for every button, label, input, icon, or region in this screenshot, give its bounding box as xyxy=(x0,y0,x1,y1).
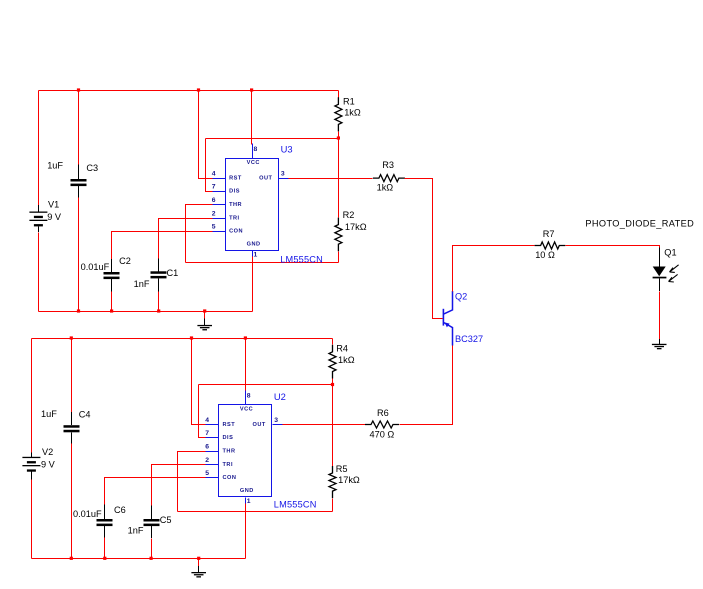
wire VCC rail to U3 RST pin 4 xyxy=(199,91,213,179)
label refdes U3 xyxy=(281,144,293,155)
svg-text:8: 8 xyxy=(254,146,258,153)
U2 pin number 3 xyxy=(274,417,278,424)
svg-text:C2: C2 xyxy=(119,256,131,266)
battery V2 9V source xyxy=(22,453,40,480)
svg-text:OUT: OUT xyxy=(259,175,272,181)
junction dot bottomrail2-C6 xyxy=(103,557,106,560)
U2 pin number 7 xyxy=(205,430,209,437)
label value 17k ohm of R2 xyxy=(345,222,367,232)
label refdes R1 xyxy=(343,96,355,106)
U2 pin name OUT xyxy=(253,422,266,428)
label value 470 ohm of R6 xyxy=(370,429,395,439)
junction dot bottomrail-C3 xyxy=(77,309,80,312)
svg-text:GND: GND xyxy=(240,488,254,494)
wire U3 CON pin 5 to C2 xyxy=(112,232,213,260)
svg-text:TRI: TRI xyxy=(223,462,234,468)
transistor Q2 emitter arrow (PNP) xyxy=(445,322,450,327)
label refdes C3 xyxy=(86,163,98,173)
U2 pin 5 CON stub xyxy=(206,477,219,479)
resistor R7 10 ohm xyxy=(535,242,566,249)
U2 pin name DIS xyxy=(223,435,234,441)
wire U2 pin 1 to ground rail xyxy=(245,504,247,559)
capacitor C6 0.01uF xyxy=(97,505,113,538)
U2 pin number 2 xyxy=(205,457,209,464)
U3 pin number 6 xyxy=(212,197,216,204)
svg-text:C1: C1 xyxy=(167,268,179,278)
junction dot ground stem on rail xyxy=(203,309,206,312)
svg-text:9 V: 9 V xyxy=(41,459,56,469)
wire OUT row to R2 top xyxy=(338,179,340,218)
svg-text:R4: R4 xyxy=(336,344,348,354)
U2 pin number 4 xyxy=(205,417,209,424)
U2 pin 4 RST stub xyxy=(206,424,219,426)
U3 pin name TRI xyxy=(229,215,240,221)
wire DIS node down to U2 DIS pin 7 xyxy=(199,385,206,438)
svg-text:1kΩ: 1kΩ xyxy=(377,183,394,193)
svg-text:LM555CN: LM555CN xyxy=(280,254,323,264)
svg-text:R3: R3 xyxy=(382,160,394,170)
svg-text:THR: THR xyxy=(223,448,236,454)
label value 9 V of V2 xyxy=(41,459,56,469)
wire Q2 collector up to R7 row xyxy=(453,246,535,292)
label refdes R4 xyxy=(336,344,348,354)
label value 1k ohm of R3 xyxy=(377,183,394,193)
svg-text:C6: C6 xyxy=(114,505,126,515)
svg-text:U3: U3 xyxy=(281,144,293,155)
U3 pin name DIS xyxy=(229,189,240,195)
diode Q1 cathode lead xyxy=(659,278,661,291)
wire U3 TRI pin 2 to C1 xyxy=(159,219,213,259)
svg-text:1: 1 xyxy=(247,498,251,505)
U3 pin 1 GND stub xyxy=(252,251,254,257)
junction dot bottomrail2-C4 xyxy=(70,557,73,560)
wire DIS node horizontal xyxy=(206,138,339,140)
label value 1k ohm of R4 xyxy=(338,355,355,365)
svg-text:R1: R1 xyxy=(343,96,355,106)
wire DIS node horizontal lower xyxy=(199,384,333,386)
junction dot R1-DIS node xyxy=(337,136,340,139)
label refdes R7 xyxy=(543,229,555,239)
wire ground stem red part xyxy=(204,312,206,319)
wire Q1 cathode to ground xyxy=(659,292,661,340)
wire C2 lower lead xyxy=(111,292,113,312)
capacitor C2 0.01uF xyxy=(104,259,120,292)
wire R4 bottom to DIS node xyxy=(332,379,334,385)
svg-text:V2: V2 xyxy=(42,447,53,457)
svg-text:VCC: VCC xyxy=(247,160,260,166)
U2 pin 8 VCC stub xyxy=(245,391,247,405)
resistor R1 1k xyxy=(335,97,342,131)
U3 pin number 4 xyxy=(212,170,216,177)
U3 pin name RST xyxy=(229,175,242,181)
label refdes R5 xyxy=(336,464,348,474)
wire ground stem red part lower xyxy=(198,559,200,567)
svg-text:1kΩ: 1kΩ xyxy=(338,355,355,365)
svg-text:OUT: OUT xyxy=(253,422,266,428)
svg-text:Q2: Q2 xyxy=(455,291,467,301)
label value 1uF of C4 xyxy=(41,409,57,419)
U3 pin 7 DIS stub xyxy=(213,191,226,193)
svg-text:5: 5 xyxy=(212,224,216,231)
junction dot rail-C3 xyxy=(77,88,80,91)
wire U3 OUT pin 3 to R3 xyxy=(289,178,373,180)
U3 pin number 7 xyxy=(212,184,216,191)
svg-text:5: 5 xyxy=(205,470,209,477)
U2 pin name GND xyxy=(240,488,254,494)
resistor R6 470 ohm xyxy=(365,421,399,428)
wire rail corner to R1 xyxy=(338,91,340,98)
U3 pin name VCC xyxy=(247,160,260,166)
svg-text:R6: R6 xyxy=(377,408,389,418)
junction dot rail2-RST wire xyxy=(190,336,193,339)
wire DIS node down to U3 DIS pin 7 xyxy=(206,139,213,192)
U2 pin name CON xyxy=(223,475,237,481)
wire C4 upper lead xyxy=(71,339,73,413)
diode Q1 cathode bar xyxy=(653,277,667,279)
U3 pin 8 VCC stub xyxy=(252,144,254,159)
svg-text:U2: U2 xyxy=(274,391,286,402)
svg-text:LM555CN: LM555CN xyxy=(274,500,317,510)
U3 pin number 2 xyxy=(212,210,216,217)
svg-text:V1: V1 xyxy=(48,200,59,210)
wire C1 lower lead xyxy=(158,292,160,312)
capacitor C4 1uF xyxy=(64,412,80,444)
wire VCC rail to U3 pin 8 xyxy=(251,91,253,145)
label value 1nF of C1 xyxy=(134,279,150,289)
U3 pin number 8 xyxy=(254,146,258,153)
U2 pin number 5 xyxy=(205,470,209,477)
U2 pin number 8 xyxy=(247,392,251,399)
svg-text:1uF: 1uF xyxy=(47,161,63,171)
wire timing node THR to R5 bottom xyxy=(178,511,333,513)
svg-text:2: 2 xyxy=(212,210,216,217)
ground symbol under Q1 xyxy=(652,339,667,349)
wire V1 branch lower xyxy=(38,233,40,312)
U2 pin number 6 xyxy=(205,443,209,450)
svg-text:6: 6 xyxy=(212,197,216,204)
svg-text:C4: C4 xyxy=(79,410,91,420)
svg-text:1nF: 1nF xyxy=(128,526,144,536)
op-amp U2 LM555CN timer body xyxy=(219,405,272,497)
label refdes Q2 xyxy=(455,291,467,301)
svg-text:7: 7 xyxy=(205,430,209,437)
label refdes R2 xyxy=(343,210,355,220)
wire bottom ground rail of U2 circuit xyxy=(32,558,246,560)
wire C6 lower lead xyxy=(104,538,106,559)
U2 pin 2 TRI stub xyxy=(206,464,219,466)
wire R1 bottom to DIS node xyxy=(338,132,340,139)
wire top VCC rail of V2 circuit xyxy=(32,338,333,340)
svg-text:Q1: Q1 xyxy=(664,247,676,257)
label refdes C5 xyxy=(160,515,172,525)
resistor R2 17k xyxy=(335,218,342,252)
svg-text:DIS: DIS xyxy=(229,189,240,195)
svg-text:CON: CON xyxy=(223,475,237,481)
label refdes C2 xyxy=(119,256,131,266)
wire DIS node through OUT row to R5 top xyxy=(332,385,334,467)
U2 pin name VCC xyxy=(240,407,253,413)
svg-text:17kΩ: 17kΩ xyxy=(338,475,360,485)
U2 pin number 1 xyxy=(247,498,251,505)
wire R7 to photodiode Q1 xyxy=(566,246,660,249)
svg-text:6: 6 xyxy=(205,443,209,450)
svg-text:2: 2 xyxy=(205,457,209,464)
wire R5 bottom corner xyxy=(332,499,334,512)
junction dot bottomrail-C2 xyxy=(110,309,113,312)
capacitor C5 1nF xyxy=(144,505,160,538)
label refdes C6 xyxy=(114,505,126,515)
diode Q1 anode lead xyxy=(659,248,661,267)
junction dot ground stem on rail 2 xyxy=(197,557,200,560)
label refdes C4 xyxy=(79,410,91,420)
svg-text:4: 4 xyxy=(205,417,209,424)
U3 pin 4 RST stub xyxy=(213,178,226,180)
label value 9 V of V1 xyxy=(47,212,62,222)
U3 pin 2 TRI stub xyxy=(213,218,226,220)
svg-text:8: 8 xyxy=(247,392,251,399)
wire top VCC rail of V1 circuit xyxy=(39,90,339,92)
U3 pin number 5 xyxy=(212,224,216,231)
svg-text:10 Ω: 10 Ω xyxy=(535,250,555,260)
label part LM555CN of U2 xyxy=(274,500,317,510)
wire C5 lower lead xyxy=(151,539,153,559)
U3 pin 3 OUT stub xyxy=(279,178,289,180)
label value 0.01uF of C6 xyxy=(73,509,102,519)
U3 pin 6 THR stub xyxy=(213,204,226,206)
U2 pin name TRI xyxy=(223,462,234,468)
svg-text:C3: C3 xyxy=(86,163,98,173)
wire rail corner to R4 xyxy=(332,339,334,345)
wire U2 OUT pin 3 to R6 xyxy=(283,424,366,426)
wire DIS node to OUT row crossing xyxy=(338,139,340,179)
svg-text:TRI: TRI xyxy=(229,215,240,221)
wire U2 THR pin 6 to timing node xyxy=(178,452,206,512)
svg-text:7: 7 xyxy=(212,184,216,191)
label net PHOTO_DIODE_RATED xyxy=(585,219,694,229)
wire Q2 emitter down to R6 row xyxy=(400,346,453,425)
wire bottom ground rail of U3 circuit xyxy=(39,311,253,313)
label part LM555CN of U3 xyxy=(280,254,323,264)
wire R3 to Q2 base xyxy=(405,179,443,319)
resistor R5 17k xyxy=(329,466,336,498)
capacitor C1 1nF xyxy=(151,259,167,292)
diode Q1 triangle xyxy=(653,267,666,277)
svg-text:1kΩ: 1kΩ xyxy=(344,108,361,118)
svg-text:1nF: 1nF xyxy=(134,279,150,289)
wire R2 bottom corner xyxy=(338,252,340,263)
svg-text:3: 3 xyxy=(281,171,285,178)
wire timing node THR to R2 bottom xyxy=(186,262,339,264)
wire C4 lower lead xyxy=(71,444,73,559)
U2 pin 7 DIS stub xyxy=(206,437,219,439)
label refdes U2 xyxy=(274,391,286,402)
wire VCC rail to U2 pin 8 xyxy=(245,339,247,391)
wire V2 branch lower xyxy=(31,480,33,559)
capacitor C3 1uF xyxy=(71,164,87,197)
label part BC327 of Q2 xyxy=(455,334,483,344)
photodiode Q1 light arrow 1 xyxy=(670,265,679,273)
U3 pin name CON xyxy=(229,229,243,235)
svg-text:GND: GND xyxy=(247,242,261,248)
label refdes V2 xyxy=(42,447,53,457)
svg-text:THR: THR xyxy=(229,202,242,208)
U2 pin name THR xyxy=(223,448,236,454)
svg-text:9 V: 9 V xyxy=(47,212,62,222)
op-amp U3 LM555CN timer body xyxy=(226,159,279,251)
svg-text:1: 1 xyxy=(254,252,258,259)
transistor Q2 emitter lead xyxy=(444,323,453,346)
svg-text:0.01uF: 0.01uF xyxy=(73,509,102,519)
svg-text:R5: R5 xyxy=(336,464,348,474)
U2 pin name RST xyxy=(223,422,236,428)
svg-text:PHOTO_DIODE_RATED: PHOTO_DIODE_RATED xyxy=(585,219,694,229)
label value 1k ohm of R1 xyxy=(344,108,361,118)
wire U3 pin 1 to ground rail xyxy=(252,257,254,312)
U3 pin name OUT xyxy=(259,175,272,181)
resistor R4 1k xyxy=(329,345,336,379)
svg-text:1uF: 1uF xyxy=(41,409,57,419)
junction dot rail2-pin8 wire xyxy=(244,336,247,339)
junction dot rail-RST wire xyxy=(197,88,200,91)
U3 pin 5 CON stub xyxy=(213,231,226,233)
ground symbol of U3 circuit xyxy=(197,319,212,331)
junction dot R4-DIS node xyxy=(331,383,334,386)
svg-text:17kΩ: 17kΩ xyxy=(345,222,367,232)
junction dot bottomrail2-C5 xyxy=(150,557,153,560)
label refdes R6 xyxy=(377,408,389,418)
U2 pin 3 OUT stub xyxy=(273,424,283,426)
U3 pin number 1 xyxy=(254,252,258,259)
wire U2 CON pin 5 to C6 xyxy=(105,478,206,505)
transistor Q2 BC327 base bar xyxy=(443,309,445,326)
label refdes Q1 xyxy=(664,247,676,257)
svg-text:RST: RST xyxy=(223,422,236,428)
wire V1 branch upper xyxy=(38,91,40,206)
svg-text:BC327: BC327 xyxy=(455,334,483,344)
label refdes R3 xyxy=(382,160,394,170)
label value 10 ohm of R7 xyxy=(535,250,555,260)
junction dot bottomrail-C1 xyxy=(157,309,160,312)
label value 17k ohm of R5 xyxy=(338,475,360,485)
svg-text:C5: C5 xyxy=(160,515,172,525)
svg-text:VCC: VCC xyxy=(240,407,253,413)
label refdes C1 xyxy=(167,268,179,278)
svg-text:DIS: DIS xyxy=(223,435,234,441)
U2 pin 6 THR stub xyxy=(206,451,219,453)
battery V1 9V source xyxy=(29,205,47,232)
U2 pin 1 GND stub xyxy=(245,498,247,504)
svg-text:3: 3 xyxy=(274,417,278,424)
ground symbol of U2 circuit xyxy=(191,566,206,577)
U3 pin name THR xyxy=(229,202,242,208)
label value 0.01uF of C2 xyxy=(81,262,110,272)
wire V2 branch upper xyxy=(31,339,33,453)
wire C3 upper lead xyxy=(78,91,80,165)
label value 1nF of C5 xyxy=(128,526,144,536)
svg-text:0.01uF: 0.01uF xyxy=(81,262,110,272)
photodiode Q1 light arrow 2 xyxy=(669,274,678,282)
wire C3 lower lead xyxy=(78,198,80,312)
wire U2 TRI pin 2 to C5 xyxy=(152,465,206,506)
resistor R3 1k xyxy=(373,175,405,182)
wire U3 THR pin 6 to timing node xyxy=(186,205,213,263)
junction dot rail-pin8 wire xyxy=(250,88,253,91)
U3 pin number 3 xyxy=(281,171,285,178)
svg-text:R2: R2 xyxy=(343,210,355,220)
label refdes V1 xyxy=(48,200,59,210)
U3 pin name GND xyxy=(247,242,261,248)
svg-text:RST: RST xyxy=(229,175,242,181)
transistor Q2 collector lead xyxy=(444,291,453,314)
label value 1uF of C3 xyxy=(47,161,63,171)
svg-text:470 Ω: 470 Ω xyxy=(370,429,395,439)
svg-text:4: 4 xyxy=(212,170,216,177)
junction dot rail2-C4 xyxy=(70,336,73,339)
svg-text:CON: CON xyxy=(229,229,243,235)
wire VCC rail to U2 RST pin 4 xyxy=(192,339,206,425)
svg-text:R7: R7 xyxy=(543,229,555,239)
